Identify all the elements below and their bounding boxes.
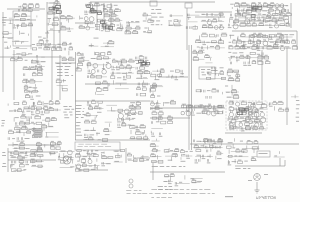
wire W331 (242, 151, 244, 153)
wire W278 (248, 113, 250, 117)
wire W19 (13, 50, 15, 100)
designator R26 label (52, 46, 55, 47)
resistor R79 (272, 14, 278, 16)
resistor R178 (252, 62, 256, 64)
capacitor C53 (87, 75, 88, 78)
wire row (10, 110, 20, 112)
reference label (210, 46, 214, 47)
capacitor C11 (86, 4, 87, 7)
wire row (85, 138, 94, 140)
reference label (106, 163, 111, 164)
wire W116 (249, 18, 251, 23)
wire W166 (126, 72, 128, 76)
wire W296 (10, 166, 12, 169)
wire row (50, 102, 60, 104)
wire W301 (86, 151, 88, 155)
wire row (79, 27, 95, 29)
reference label (240, 117, 244, 118)
resistor R255 (158, 117, 162, 119)
resistor R193 (31, 107, 35, 110)
resistor R68 (216, 46, 220, 49)
capacitor C3 (17, 24, 18, 27)
reference label (44, 103, 49, 104)
capacitor C104 (136, 126, 137, 129)
reference label (228, 142, 233, 143)
resistor R322 (172, 155, 178, 157)
wire W361 (282, 5, 284, 8)
wire W349 (273, 15, 275, 18)
designator R197 label (45, 109, 48, 110)
pin labels (69, 63, 72, 64)
wire row (97, 93, 105, 95)
designator R131 label (97, 55, 100, 56)
designator R332 label (238, 160, 242, 161)
resistor R81 (286, 14, 292, 16)
schematic notes (191, 192, 198, 195)
designator C155 label (253, 9, 257, 10)
designator C92 label (33, 131, 37, 132)
wire W46 (152, 163, 154, 180)
wire W124 (231, 7, 233, 9)
reference label (239, 156, 243, 157)
capacitor C114 (152, 133, 153, 136)
wire row (15, 25, 33, 27)
reference label (242, 41, 246, 42)
designator R202 label (35, 115, 39, 116)
reference label (128, 159, 132, 160)
wire W184 (155, 76, 157, 80)
wire W367 (280, 37, 282, 41)
schematic notes (179, 192, 185, 195)
transistor label (264, 174, 268, 175)
designator R345 label (214, 110, 218, 111)
capacitor C146 (195, 159, 196, 162)
wire W329 (228, 149, 230, 153)
resistor R148 (144, 72, 150, 74)
resistor R211 (8, 131, 13, 133)
reference label (14, 148, 17, 149)
wire row (143, 15, 152, 17)
resistor R64 (221, 34, 227, 36)
capacitor C96 (40, 135, 41, 138)
resistor R279 (273, 102, 277, 104)
capacitor C92 (33, 128, 34, 131)
reference label (14, 41, 19, 42)
designator R223 label (92, 100, 95, 101)
wire row (14, 15, 31, 17)
designator R36 label (105, 13, 109, 14)
wire W286 (257, 146, 259, 150)
wire W304 (75, 164, 77, 167)
resistor R138 (112, 60, 116, 62)
capacitor C116 (193, 140, 194, 143)
resistor R286 (252, 147, 258, 149)
designator R184 label (229, 77, 233, 78)
designator R316 label (153, 148, 156, 149)
designator R130 label (108, 51, 111, 52)
capacitor C110 (213, 105, 214, 108)
wire W299 (72, 160, 74, 163)
designator R191 label (38, 101, 41, 102)
designator C72 label (214, 70, 218, 71)
wire W354 (241, 13, 243, 17)
designator R118 label (23, 79, 28, 80)
resistor R97 (248, 41, 252, 44)
designator R159 label (151, 87, 155, 88)
capacitor C40 (276, 41, 277, 44)
reference label (97, 112, 102, 113)
designator R249 label (182, 104, 186, 105)
wire W91 (126, 29, 128, 33)
reference label (252, 19, 256, 20)
pin labels (76, 122, 80, 123)
capacitor C31 (242, 9, 243, 12)
resistor R73 (270, 4, 274, 6)
pin labels (83, 108, 84, 109)
resistor R356 (283, 40, 288, 43)
designator R354 label (280, 34, 283, 35)
wire row (33, 66, 45, 68)
wire W143 (36, 61, 38, 64)
wire W20 (51, 50, 53, 100)
designator R291 label (38, 148, 42, 149)
resistor R127 (78, 59, 84, 62)
resistor R320 (164, 150, 169, 152)
transistor Q50 (230, 125, 234, 129)
pin labels (65, 72, 69, 73)
designator R47 label (126, 26, 130, 27)
transistor Q5 (86, 26, 90, 30)
designator Q18 label (263, 39, 266, 40)
designator Q1 label (52, 6, 55, 7)
resistor R346 (267, 6, 273, 8)
wire W177 (142, 83, 144, 86)
transistor Q6 (207, 20, 212, 25)
resistor R108 (292, 47, 297, 50)
designator R287 label (14, 150, 18, 151)
reference label (274, 155, 277, 156)
wire row (49, 29, 61, 31)
wire W288 (21, 157, 23, 160)
designator R235 label (122, 122, 125, 123)
designator R72 label (264, 2, 267, 3)
wire W74 (50, 43, 52, 45)
designator R357 label (274, 43, 276, 44)
designator R151 label (97, 87, 100, 88)
designator R289 label (19, 159, 23, 160)
capacitor C66 (146, 83, 147, 86)
reference label (232, 161, 237, 162)
reference label (201, 14, 204, 15)
designator R199 label (56, 100, 59, 101)
reference label (128, 72, 132, 73)
reference label (201, 145, 205, 146)
capacitor C124 (230, 117, 231, 120)
wire row (169, 25, 183, 27)
designator R193 label (31, 106, 34, 107)
reference label (91, 58, 96, 59)
designator R98 label (257, 39, 260, 40)
wire W188 (181, 71, 183, 75)
wire W217 (49, 106, 51, 109)
resistor R359 (218, 140, 222, 143)
resistor R305 (81, 160, 85, 163)
reference label (10, 165, 13, 166)
wire W267 (248, 112, 250, 114)
wire W13 (186, 8, 188, 50)
wire row (57, 85, 68, 87)
pin labels (75, 108, 81, 109)
capacitor C58 (124, 76, 125, 79)
wire W55 (19, 31, 21, 35)
resistor R324 (196, 150, 201, 152)
designator R305 label (82, 158, 86, 159)
resistor R93 (269, 34, 274, 37)
resistor R6 (14, 15, 19, 17)
reference label (196, 147, 200, 148)
designator R89 label (286, 22, 288, 23)
reference label (95, 29, 99, 30)
wire W213 (23, 109, 25, 112)
resistor R60 (202, 26, 207, 28)
wire W133 (248, 35, 250, 39)
resistor R350 (234, 20, 239, 22)
wire row (202, 14, 224, 16)
reference label (95, 150, 98, 151)
wire row (202, 26, 225, 28)
reference label (252, 14, 256, 15)
resistor R65 (196, 41, 201, 43)
designator R52 label (148, 19, 152, 20)
capacitor C27 (203, 41, 204, 44)
resistor R236 (104, 130, 109, 132)
edge labels (296, 100, 299, 101)
wire row (127, 28, 140, 30)
capacitor C145 (202, 155, 203, 158)
wire row (10, 157, 27, 159)
resistor R212 (27, 131, 31, 133)
wire row (129, 137, 149, 139)
designator R281 label (279, 108, 282, 109)
designator Q23 label (102, 68, 105, 69)
transistor Q28 (151, 102, 155, 106)
capacitor C134 (15, 161, 16, 164)
capacitor C74 (204, 90, 205, 93)
wire row (241, 36, 292, 38)
designator R274 label (245, 121, 249, 122)
wire W268 (232, 101, 234, 105)
pin labels (75, 132, 81, 133)
wire W185 (150, 72, 152, 74)
transistor Q19 (281, 47, 285, 51)
resistor R241 (136, 132, 142, 134)
reference label (44, 145, 47, 146)
wire W118 (254, 17, 256, 21)
wire W282 (268, 104, 270, 106)
designator R212 label (27, 130, 30, 131)
reference label (41, 57, 45, 58)
resistor R202 (35, 116, 41, 119)
wire W93 (148, 27, 150, 30)
capacitor C22 (186, 26, 187, 29)
wire row (195, 155, 213, 157)
wire W99 (188, 17, 190, 20)
module enclosure A3 (226, 101, 267, 130)
wire W238 (96, 115, 98, 117)
designator C126 label (234, 126, 238, 127)
designator R348 label (266, 15, 270, 16)
wire W294 (50, 152, 52, 156)
resistor R147 (137, 72, 143, 74)
input terminal labels (2, 17, 7, 18)
wire W69 (47, 31, 49, 34)
wire W302 (96, 158, 98, 161)
designator R35 label (115, 8, 119, 9)
relay K1 label (259, 153, 268, 154)
resistor R232 (85, 121, 90, 123)
designator C150 label (175, 185, 179, 186)
designator R92 label (258, 33, 262, 34)
resistor R284 (247, 142, 252, 145)
output transistor Q90 (254, 174, 261, 181)
designator R9 label (22, 23, 25, 24)
wire W47 (256, 182, 258, 190)
IC chip U723 (dark) (53, 8, 58, 10)
wire W38 (7, 148, 9, 172)
wire W44 (279, 158, 281, 166)
wire W41 (150, 171, 225, 173)
wire W205 (236, 60, 238, 62)
resistor R48 (136, 27, 140, 29)
resistor R353 (263, 36, 268, 38)
wire row (77, 165, 100, 167)
resistor R242 (131, 137, 135, 139)
connector X2 (129, 184, 133, 188)
wire row (103, 42, 114, 44)
capacitor C142 (102, 162, 103, 165)
wire W226 (40, 134, 42, 136)
resistor R151 (96, 89, 101, 92)
wire row (84, 130, 96, 132)
reference label (143, 21, 147, 22)
wire row (129, 107, 141, 109)
reference label (286, 48, 291, 49)
reference label (106, 24, 109, 25)
wire W62 (57, 1, 59, 6)
resistor R128 (95, 53, 99, 55)
resistor R265 (241, 102, 246, 105)
designator R70 label (242, 2, 247, 3)
resistor R336 (236, 110, 240, 112)
wire row (232, 128, 266, 130)
annotation text (248, 168, 251, 169)
wire W73 (44, 45, 46, 49)
input labels (2, 152, 5, 153)
resistor R144 (127, 76, 131, 78)
reference label (101, 30, 104, 31)
resistor R245 (155, 107, 159, 109)
capacitor C16 (102, 24, 103, 27)
note text (139, 189, 142, 192)
resistor R209 (51, 119, 56, 121)
wire W100 (194, 25, 196, 29)
wire W319 (180, 157, 182, 160)
wire W61 (36, 15, 38, 17)
legend text (93, 143, 99, 146)
resistor R11 (3, 32, 8, 35)
wire W129 (274, 41, 276, 45)
wire W300 (63, 153, 65, 157)
designator R178 label (252, 60, 255, 61)
resistor R5 (28, 9, 32, 11)
wire W206 (255, 61, 257, 63)
designator R5 label (28, 8, 31, 9)
resistor R259 (203, 140, 208, 142)
wire W153 (62, 79, 64, 83)
wire row (252, 159, 257, 161)
resistor R2 (28, 5, 33, 8)
designator R277 label (253, 126, 257, 127)
designator R152 label (103, 87, 107, 88)
reference label (181, 161, 186, 162)
resistor R197 (44, 111, 49, 113)
capacitor C102 (118, 124, 119, 127)
wire W137 (229, 35, 231, 39)
wire row (47, 2, 58, 4)
wire row (60, 156, 73, 158)
capacitor C140 (94, 164, 95, 167)
annotation text (158, 186, 163, 187)
capacitor C163 (244, 45, 245, 48)
wire row (196, 147, 219, 149)
connector pin labels (156, 20, 160, 21)
wire W209 (231, 92, 233, 96)
resistor R43 (95, 24, 100, 26)
wire row (77, 155, 96, 157)
resistor R318 (152, 160, 157, 162)
wire W235 (111, 107, 113, 111)
wire W165 (118, 62, 120, 65)
designator R172 label (151, 94, 154, 95)
resistor R317 (151, 155, 156, 157)
wire W237 (132, 104, 134, 107)
reference label (50, 29, 53, 30)
resistor R38 (85, 22, 89, 24)
wire row (95, 83, 109, 85)
designator C34 label (230, 17, 234, 18)
wire row (236, 4, 288, 6)
wire W271 (227, 116, 229, 120)
annotation text (243, 168, 246, 169)
wire W156 (93, 52, 95, 55)
designator C106 label (156, 105, 160, 106)
resistor R52 (148, 20, 153, 22)
capacitor C61 (141, 62, 142, 65)
wire W346 (185, 106, 187, 110)
designator R46 label (117, 27, 120, 28)
capacitor C64 (138, 83, 139, 86)
input labels (2, 155, 6, 156)
reference label (9, 111, 13, 112)
resistor R130 (107, 53, 111, 55)
capacitor C21 (188, 14, 189, 17)
designator Q46 label (88, 158, 91, 159)
designator C28 label (201, 50, 205, 51)
wire row (48, 8, 59, 10)
wire W150 (34, 84, 36, 87)
designator C18 label (126, 25, 130, 26)
resistor R337 (241, 110, 246, 112)
